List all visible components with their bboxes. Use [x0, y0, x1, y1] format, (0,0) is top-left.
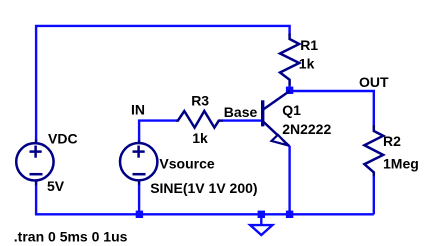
voltage source VDC	[16, 140, 53, 186]
voltage source Vsource	[120, 140, 157, 186]
svg-text:Base: Base	[224, 104, 258, 120]
svg-text:5V: 5V	[47, 178, 65, 194]
junction at Vsource bottom	[136, 211, 143, 218]
transistor Q1 emitter arrow	[272, 135, 288, 146]
wire: R2 bottom to bottom rail	[373, 176, 375, 215]
resistor R1	[280, 34, 299, 86]
svg-text:IN: IN	[131, 102, 145, 118]
svg-text:Vsource: Vsource	[159, 155, 214, 171]
svg-text:R1: R1	[300, 37, 318, 53]
wire: Vsource top to IN corner and to R3	[139, 121, 177, 141]
wire: bottom rail	[36, 185, 374, 215]
svg-text:R3: R3	[191, 92, 209, 108]
svg-text:1k: 1k	[299, 56, 315, 72]
svg-text:.tran 0 5ms 0 1us: .tran 0 5ms 0 1us	[14, 229, 128, 245]
svg-text:Q1: Q1	[282, 102, 301, 118]
svg-text:R2: R2	[383, 133, 401, 149]
wire: Vsource bottom to bottom rail	[138, 185, 140, 215]
wire: R3 to base	[223, 119, 262, 121]
svg-text:OUT: OUT	[359, 74, 389, 90]
transistor Q1 collector stroke	[263, 91, 289, 110]
junction at ground tap	[258, 211, 265, 218]
svg-text:VDC: VDC	[48, 130, 78, 146]
transistor Q1 base bar	[261, 100, 264, 126]
wire: left rail + top rail down to R1 top	[36, 26, 290, 141]
svg-text:SINE(1V 1V 200): SINE(1V 1V 200)	[150, 180, 257, 196]
junction at emitter / bottom rail	[286, 211, 293, 218]
node OUT junction (collector)	[286, 87, 293, 94]
transistor Q1 emitter stroke	[263, 122, 289, 147]
wire: emitter down to bottom rail	[288, 146, 290, 214]
svg-text:1Meg: 1Meg	[383, 156, 419, 172]
resistor R2	[364, 125, 383, 177]
wire: collector node to OUT and down to R2	[290, 91, 374, 126]
resistor R3	[176, 111, 223, 128]
ground	[250, 216, 272, 235]
svg-text:1k: 1k	[192, 130, 208, 146]
wire: R1 bottom to collector node	[288, 85, 290, 91]
svg-text:2N2222: 2N2222	[282, 121, 331, 137]
